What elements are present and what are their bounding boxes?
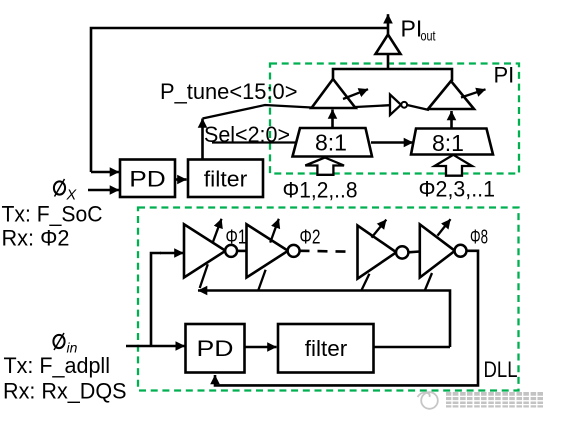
svg-text:Rx: Φ2: Rx: Φ2	[2, 226, 70, 251]
svg-text:Sel<2:0>: Sel<2:0>	[204, 122, 290, 147]
svg-text:Rx: Rx_DQS: Rx: Rx_DQS	[3, 378, 127, 403]
svg-text:Φ2,3,..1: Φ2,3,..1	[419, 177, 496, 202]
svg-text:PD: PD	[129, 166, 166, 191]
svg-text:PD: PD	[197, 336, 234, 361]
svg-text:8:1: 8:1	[315, 130, 347, 156]
svg-text:out: out	[421, 27, 436, 43]
svg-text:Φ2: Φ2	[300, 227, 321, 249]
svg-text:filter: filter	[305, 336, 348, 361]
svg-text:PI: PI	[494, 63, 515, 88]
svg-text:Tx: F_SoC: Tx: F_SoC	[2, 201, 103, 226]
svg-text:Φ1,2,..8: Φ1,2,..8	[283, 177, 358, 202]
svg-text:PI: PI	[401, 15, 423, 41]
svg-text:filter: filter	[204, 166, 248, 191]
svg-text:8:1: 8:1	[432, 130, 464, 156]
svg-text:P_tune<15:0>: P_tune<15:0>	[160, 79, 298, 104]
svg-text:Φ8: Φ8	[470, 226, 488, 248]
svg-text:Φ1: Φ1	[226, 227, 247, 249]
svg-text:DLL: DLL	[484, 357, 518, 382]
svg-text:Tx: F_adpll: Tx: F_adpll	[4, 353, 111, 378]
